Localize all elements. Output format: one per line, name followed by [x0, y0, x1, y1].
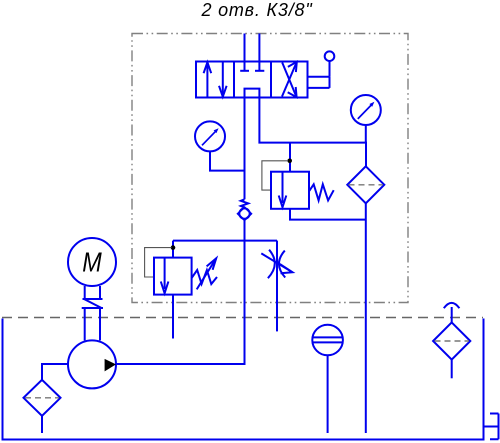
pump N1	[68, 340, 116, 388]
throttle DR1 (adjustable)	[261, 250, 292, 279]
wire P pressure line (check valve to pump)	[116, 220, 245, 365]
port wire B (to top outlet)	[258, 34, 260, 62]
valve left position arrows (parallel flow)	[204, 62, 227, 96]
relief valve KP1 body	[154, 258, 192, 295]
junction dot (bypass pilot tap)	[287, 159, 292, 164]
check valve spring	[241, 199, 248, 207]
breather vent arc	[444, 303, 460, 308]
relief valve inlet wire	[172, 241, 174, 258]
suction wire	[42, 364, 68, 380]
suction strainer F2	[24, 380, 61, 416]
svg-text:2 оmв. К3/8": 2 оmв. К3/8"	[200, 0, 313, 20]
level indicator	[312, 325, 343, 356]
tank drain port bracket	[484, 414, 499, 440]
relief valve drain wire	[172, 295, 174, 339]
check valve ball	[239, 208, 249, 218]
valve lever actuator	[307, 51, 335, 88]
electric motor M1	[68, 238, 116, 286]
filter F1 element (dashed)	[349, 184, 384, 186]
breather outlet stub wire	[451, 360, 453, 379]
breather filter F3	[433, 322, 470, 359]
valve right position crossed arrows	[282, 62, 297, 97]
throttle wire	[276, 241, 278, 332]
bypass valve outlet wire	[290, 209, 366, 220]
wire T return line below filter to tank	[365, 203, 367, 433]
pump flow triangle	[105, 359, 116, 372]
valve center position blocked ports (T marks)	[240, 62, 264, 71]
filter bypass valve body	[271, 172, 309, 209]
pressure gauge MN1	[195, 121, 225, 151]
manifold enclosure (dash-dot boundary)	[132, 34, 408, 303]
pressure gauge MN2	[351, 95, 381, 125]
level indicator stem wire	[327, 355, 329, 433]
coupling / shaft	[82, 286, 103, 340]
gauge MN2 stem wire	[365, 125, 367, 143]
return filter F1	[347, 166, 384, 203]
branch wire (relief valve / throttle)	[173, 240, 277, 242]
bypass valve spring	[309, 184, 334, 200]
port wire A (to top outlet)	[244, 34, 246, 62]
tank outline	[3, 319, 484, 440]
valve center position bypass connection	[245, 89, 260, 98]
tank top edge (dashed)	[2, 317, 483, 319]
check valve seat (diamond)	[238, 207, 252, 220]
breather F3 element (dashed)	[435, 340, 470, 342]
relief valve spring (adjustable)	[192, 258, 217, 289]
junction dot (relief pilot tap)	[171, 245, 176, 250]
gauge MN1 stem wire	[210, 151, 245, 170]
bypass valve inlet wire	[289, 143, 291, 172]
directional valve U1 body	[196, 62, 308, 98]
pilot line (relief valve)	[145, 248, 172, 277]
strainer F2 inlet stub wire	[41, 416, 43, 433]
breather stub wire	[451, 307, 453, 322]
pilot line (bypass valve)	[262, 161, 288, 190]
strainer F2 element (dashed)	[25, 397, 59, 399]
wire P pressure line (valve to check valve)	[244, 98, 246, 200]
svg-text:M: M	[82, 246, 102, 278]
wire T return line	[259, 98, 366, 167]
